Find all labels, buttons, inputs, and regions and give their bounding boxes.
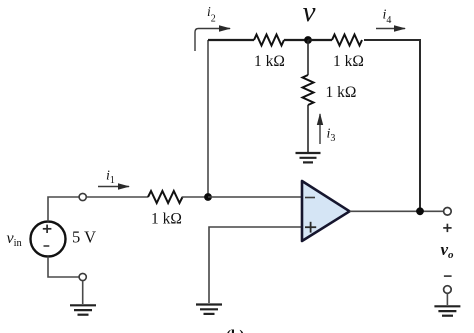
resistor R2 1 kΩ (top left) [254, 35, 284, 46]
svg-text:i1: i1 [106, 169, 115, 187]
wire node V down to R3 [307, 40, 309, 75]
lower output terminal (open circle) [444, 286, 452, 294]
svg-text:i4: i4 [383, 8, 392, 27]
op-amp U1 [302, 181, 350, 241]
label − (output polarity) [444, 275, 452, 277]
wire source bottom to lower terminal [48, 257, 79, 278]
voltage source vin [31, 222, 66, 257]
input terminal (open circle) [79, 193, 86, 200]
svg-text:1 kΩ: 1 kΩ [151, 211, 182, 228]
wire node V to R4 [308, 39, 332, 41]
wire terminal to ground [82, 281, 84, 304]
wire top-left vertical (node to top corner) [207, 40, 209, 197]
wire source top to input terminal [48, 197, 79, 222]
output terminal (open circle) [444, 208, 452, 216]
svg-text:vin: vin [7, 230, 23, 249]
wire R4 to top-right corner and down to output node [364, 40, 420, 211]
resistor R3 1 kΩ (vertical) [303, 75, 314, 105]
svg-text:1 kΩ: 1 kΩ [333, 53, 364, 70]
wire R1 to inverting node [182, 196, 208, 198]
wire R3 to ground [307, 105, 309, 152]
wire node to op-amp - input [208, 196, 302, 198]
wire R2 to node V [284, 39, 308, 41]
label + (output polarity) [443, 224, 451, 232]
node V junction dot [304, 36, 312, 44]
wire terminal to ground [446, 293, 448, 305]
svg-text:1 kΩ: 1 kΩ [326, 84, 357, 101]
svg-text:i3: i3 [327, 127, 336, 145]
lower-left terminal (open circle) [79, 273, 86, 280]
wire terminal to R1 [86, 196, 148, 198]
svg-text:vo: vo [441, 240, 455, 261]
output node dot [416, 207, 424, 215]
current arrow i1 [98, 186, 129, 188]
wire op-amp output to terminal [350, 210, 444, 212]
ground (below source) [70, 305, 96, 314]
wire top horizontal left segment [208, 39, 254, 41]
svg-text:v: v [303, 0, 316, 28]
current arrow i2 [195, 29, 230, 52]
svg-text:(b): (b) [226, 328, 244, 333]
ground (below R3) [296, 153, 321, 162]
current arrow i3 [319, 114, 321, 144]
svg-text:1 kΩ: 1 kΩ [254, 53, 285, 70]
ground (below op-amp + input) [196, 305, 222, 314]
ground (below output terminal) [434, 306, 460, 315]
inverting input node dot [204, 193, 212, 201]
svg-text:i2: i2 [207, 4, 216, 25]
resistor R4 1 kΩ (top right) [332, 35, 362, 46]
svg-text:5 V: 5 V [72, 228, 96, 247]
current arrow i4 [376, 28, 405, 30]
wire + input with corner down to ground [209, 227, 302, 303]
resistor R1 1 kΩ (input) [148, 191, 182, 203]
